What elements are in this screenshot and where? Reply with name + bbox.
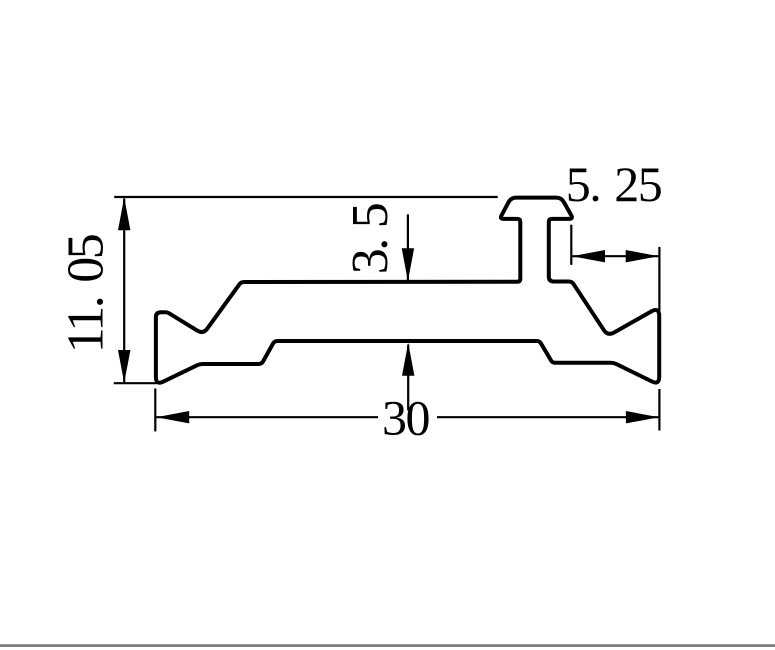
arrowhead 11.05 down [118,350,130,383]
extension line: top reference for 11.05 [114,196,498,198]
arrowhead 3.5 down [402,248,414,281]
arrowhead 5.25 left [572,250,605,262]
arrowhead 5.25 right [626,250,659,262]
3.5 lower arrow tail [407,345,409,411]
arrowhead 3.5 up [402,343,414,376]
bottom gray border [0,644,775,647]
extension line: left reference for 30 [154,389,156,432]
dimension line 30 (right segment) [437,416,659,418]
svg-text:5.25: 5.25 [566,156,662,212]
extension line: bottom reference for 11.05 [114,382,157,384]
arrowhead 30 left [156,411,189,423]
extension line: left reference for 5.25 [570,225,572,265]
arrowhead 11.05 up [118,197,130,230]
arrowhead 30 right [626,411,659,423]
3.5 upper arrow tail [407,214,409,280]
dimension line 30 (left segment) [156,416,378,418]
svg-text:30: 30 [382,390,430,446]
aluminium extrusion profile outline [156,198,659,383]
dimension line 5.25 [572,255,658,257]
extension line: right reference for 5.25 [658,247,660,311]
extension line: right reference for 30 [658,389,660,431]
dimension line 11.05 [123,199,125,383]
